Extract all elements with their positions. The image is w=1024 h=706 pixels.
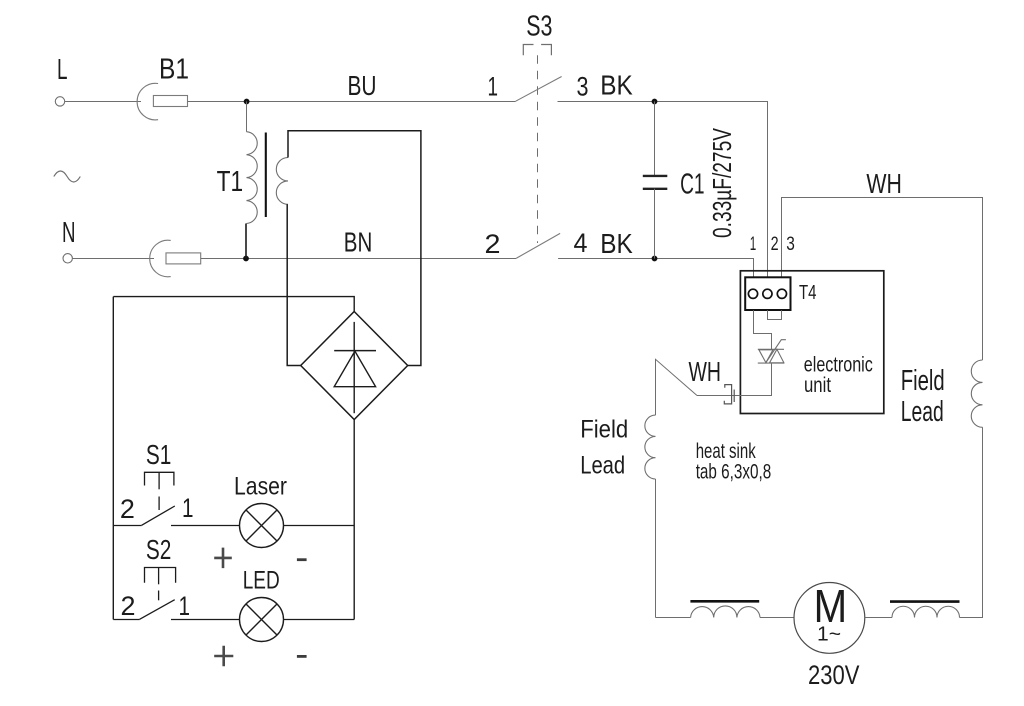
lamp Laser circle — [240, 504, 284, 548]
svg-text:L: L — [57, 54, 68, 86]
transformer T1 secondary winding — [276, 158, 288, 205]
transformer T1 primary winding — [247, 132, 258, 224]
capacitor C1 plates — [643, 176, 668, 189]
triac top bar — [758, 348, 784, 350]
wire led lamp to right edge — [284, 619, 355, 621]
svg-text:2: 2 — [121, 591, 136, 621]
connector T4 box — [745, 277, 790, 310]
switch S2 bracket — [145, 568, 176, 583]
node junction dot C1 bottom — [652, 256, 658, 262]
sine wave AC symbol — [54, 171, 81, 182]
bridge diode triangle — [334, 351, 375, 387]
svg-text:WH: WH — [866, 168, 902, 199]
terminal N circle — [63, 254, 72, 263]
transformer T1 primary bottom lead — [245, 224, 247, 259]
wire WH to right field lead — [782, 198, 983, 361]
motor M circle — [794, 583, 865, 654]
wire lamp-box top edge to bridge top vertex — [113, 297, 354, 312]
wire BU — [188, 101, 516, 103]
label led minus — [297, 655, 307, 658]
coil left field lead — [645, 415, 656, 479]
wire led branch left — [113, 619, 139, 621]
wire motor to right winding — [865, 617, 892, 619]
svg-text:S2: S2 — [146, 534, 172, 565]
svg-text:Lead: Lead — [901, 396, 944, 428]
node junction dot BN/T1 — [243, 256, 249, 262]
node junction dot C1 top — [652, 99, 658, 105]
node junction dot BU/T1 — [244, 99, 250, 105]
label laser minus — [297, 558, 307, 561]
bridge diode vertical line — [353, 322, 355, 413]
fuse N body — [166, 253, 201, 264]
triac gate — [766, 340, 786, 363]
wire N to fuse — [73, 258, 155, 260]
capacitor C1 bottom lead — [654, 189, 656, 259]
transformer T1 primary top lead — [246, 102, 248, 132]
bridge rectifier diamond — [301, 312, 408, 420]
svg-text:1: 1 — [750, 233, 757, 255]
wire left field lead diagonal — [656, 359, 698, 415]
triac triangle down — [759, 350, 773, 363]
wire right side down to motor — [960, 427, 983, 617]
capacitor C1 top lead — [654, 102, 656, 176]
switch S2 actuator dash — [158, 591, 160, 601]
svg-text:Laser: Laser — [234, 472, 287, 500]
wire laser branch right — [171, 525, 239, 527]
electronic unit box — [740, 271, 883, 414]
svg-text:BN: BN — [344, 226, 373, 257]
wire lamp-box left edge — [112, 297, 114, 620]
wire laser lamp to right edge — [284, 525, 355, 527]
svg-text:Lead: Lead — [580, 452, 625, 480]
wire pin2-pin3 jumper — [768, 310, 782, 319]
bridge diode cathode bar — [334, 350, 376, 352]
wire pin1 to triac — [754, 310, 772, 349]
svg-text:230V: 230V — [808, 660, 860, 690]
wire 3 BK — [558, 102, 768, 278]
svg-text:Field: Field — [580, 416, 628, 444]
svg-text:BK: BK — [600, 228, 633, 259]
svg-text:0.33µF/275V: 0.33µF/275V — [707, 128, 737, 238]
coil right field lead — [971, 360, 982, 427]
label laser plus — [214, 548, 232, 569]
terminal L circle — [55, 97, 64, 106]
lamp LED cross — [246, 604, 277, 635]
svg-text:T1: T1 — [217, 166, 244, 198]
coil motor winding right — [892, 606, 960, 617]
svg-text:BU: BU — [348, 70, 377, 101]
svg-text:C1: C1 — [680, 168, 705, 200]
svg-text:Field: Field — [901, 365, 945, 397]
svg-text:unit: unit — [804, 373, 831, 397]
tab connector bracket — [724, 385, 731, 404]
svg-text:1: 1 — [179, 591, 191, 621]
wire triac bottom to tab — [697, 363, 772, 395]
wire laser branch left — [113, 525, 141, 527]
svg-text:S1: S1 — [146, 439, 172, 470]
wire winding to motor — [760, 617, 794, 619]
svg-text:T4: T4 — [799, 281, 817, 304]
wire bridge bottom to lamp-box right edge — [353, 420, 355, 620]
switch S3 linkage dashed line — [537, 55, 539, 243]
core bar motor winding right — [890, 600, 960, 603]
lamp LED circle — [240, 598, 284, 642]
wire 4 BK — [558, 259, 753, 278]
svg-text:2: 2 — [120, 494, 135, 524]
svg-text:N: N — [62, 217, 76, 249]
wire secondary top loop to bridge right vertex — [288, 131, 421, 366]
switch S3 blade 1-3 — [516, 77, 562, 102]
switch S1 bracket — [145, 472, 174, 485]
switch S2 blade — [140, 600, 175, 620]
wire secondary bottom to bridge left vertex — [287, 204, 301, 365]
tab connector blade — [733, 390, 735, 403]
svg-text:4: 4 — [574, 228, 588, 258]
wire L to fuse B1 — [65, 101, 141, 103]
svg-text:S3: S3 — [526, 11, 552, 43]
switch S2 actuator line — [158, 568, 160, 585]
switch S1 actuator dash — [158, 497, 160, 511]
svg-text:1: 1 — [182, 493, 194, 523]
svg-text:B1: B1 — [159, 54, 189, 86]
transformer T1 core — [265, 133, 267, 218]
fuse B1 holder arc — [137, 83, 158, 120]
triac triangle up — [770, 349, 784, 363]
svg-text:2: 2 — [771, 233, 779, 255]
switch S3 bracket — [523, 45, 551, 56]
wire led branch right — [171, 619, 239, 621]
svg-text:WH: WH — [689, 356, 722, 387]
fuse B1 body — [153, 96, 187, 107]
coil motor winding left — [691, 606, 760, 618]
connector T4 pin circles — [748, 289, 786, 298]
switch S3 blade 2-4 — [516, 233, 560, 258]
lamp Laser cross — [246, 510, 277, 541]
core bar motor winding left — [690, 600, 759, 603]
wire left field lead down — [655, 479, 657, 618]
switch S1 actuator line — [158, 472, 160, 489]
svg-text:LED: LED — [243, 567, 280, 595]
triac bottom bar — [758, 362, 784, 364]
svg-text:2: 2 — [485, 229, 501, 259]
wire BN — [201, 258, 516, 260]
svg-text:tab 6,3x0,8: tab 6,3x0,8 — [696, 460, 772, 484]
svg-text:1~: 1~ — [817, 623, 841, 646]
wire bottom left corner — [656, 617, 691, 619]
fuse N holder arc — [150, 240, 171, 277]
svg-text:BK: BK — [600, 69, 633, 100]
svg-text:3: 3 — [577, 71, 589, 101]
switch S1 blade — [142, 506, 175, 525]
label led plus — [214, 646, 233, 667]
svg-text:3: 3 — [786, 233, 795, 255]
svg-text:1: 1 — [488, 71, 499, 101]
